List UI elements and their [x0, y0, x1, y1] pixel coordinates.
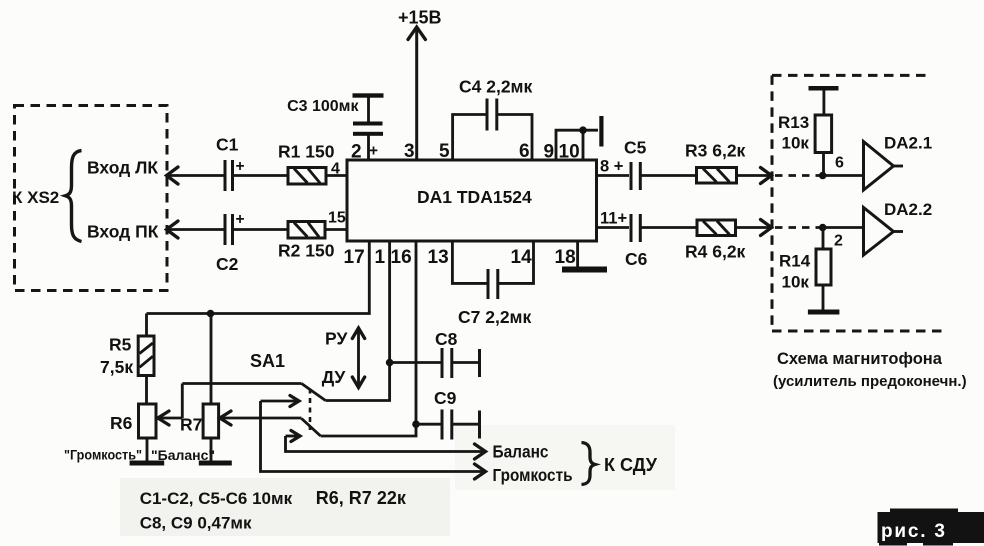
pin 5 label [439, 141, 450, 162]
svg-text:С1-С2, С5-С6 10мк: С1-С2, С5-С6 10мк [140, 489, 293, 508]
svg-text:С8, С9 0,47мк: С8, С9 0,47мк [140, 514, 252, 533]
svg-text:C4 2,2мк: C4 2,2мк [459, 77, 533, 97]
wire C2 to R2 [233, 228, 289, 231]
svg-text:DA1 TDA1524: DA1 TDA1524 [417, 187, 532, 207]
svg-text:C5: C5 [624, 138, 647, 158]
wire C9 to terminal [452, 411, 480, 439]
node Вход ПК [87, 222, 159, 242]
svg-text:11+: 11+ [600, 210, 627, 228]
svg-text:1: 1 [375, 247, 386, 268]
svg-text:R6: R6 [110, 413, 133, 433]
wire C8 to terminal [452, 349, 480, 377]
wire R4 to DA2.2 with arrow [736, 220, 772, 236]
wire громкость output [261, 401, 485, 472]
svg-text:C9: C9 [434, 388, 457, 408]
label Громкость [64, 447, 142, 463]
pin 3 label [404, 141, 415, 162]
svg-text:С3 100мк: С3 100мк [287, 98, 359, 115]
wiper arrow into R6 [158, 384, 183, 426]
pin 14 label [511, 247, 533, 268]
wire input left channel with arrow [167, 167, 225, 184]
wire to C9 [416, 423, 441, 426]
РУ label with up arrow [325, 328, 365, 386]
wire C5 to R3 [640, 174, 696, 177]
dashed box right (open right side) [772, 75, 946, 331]
junction R14 on DA2.2 input [819, 224, 827, 232]
wire junction to DA2.1 [823, 174, 864, 177]
svg-text:SA1: SA1 [250, 351, 285, 371]
switch contact to СДУ (громкость) with arrow [261, 396, 300, 407]
svg-text:+: + [236, 211, 245, 228]
brace К СДУ [582, 443, 596, 485]
svg-text:К XS2: К XS2 [12, 188, 59, 207]
svg-text:6: 6 [519, 141, 530, 162]
switch SA1 lever 2 [302, 419, 321, 437]
pin 11 label [600, 210, 627, 228]
switch SA1 mechanical link [309, 389, 312, 431]
pin 18 label [555, 247, 576, 268]
note усилитель предоконечн [773, 373, 967, 390]
dashed wire into DA2.2 [775, 226, 820, 229]
svg-text:9: 9 [544, 142, 555, 163]
resistor R1 150 [278, 142, 335, 185]
svg-text:К СДУ: К СДУ [604, 455, 658, 475]
junction C8 tap on pin1 line [386, 359, 394, 367]
ground below R6 [130, 438, 165, 466]
node К XS2 label [12, 188, 59, 207]
wire C1 to R1 [233, 174, 289, 177]
capacitor C8 [435, 329, 458, 378]
svg-text:R6, R7 22к: R6, R7 22к [316, 488, 407, 508]
wire R5 to R6 [145, 376, 148, 405]
svg-text:(усилитель предоконечн.): (усилитель предоконечн.) [773, 373, 967, 390]
svg-text:РУ: РУ [325, 329, 348, 349]
wire R1 to pin4 [326, 161, 347, 178]
ground plate at pins 9,10 [599, 116, 603, 147]
svg-text:ДУ: ДУ [322, 367, 347, 387]
svg-text:4: 4 [331, 161, 340, 178]
svg-text:15: 15 [328, 210, 346, 227]
svg-text:10к: 10к [782, 273, 810, 292]
wire R7 top to control rail [207, 310, 215, 404]
label Баланс [151, 447, 215, 463]
resistor R13 10к [778, 113, 832, 176]
wire pin13 to C7 [452, 241, 486, 283]
wire pin5 up to C4 [453, 115, 486, 161]
wire pins 9,10 to plate terminal [556, 126, 598, 160]
svg-text:C1: C1 [216, 135, 239, 155]
svg-text:R7: R7 [180, 415, 202, 435]
resistor R4 6,2к [685, 220, 746, 262]
svg-text:+: + [236, 158, 245, 175]
wire pin16 down to switch contact [321, 241, 416, 436]
svg-text:10: 10 [559, 142, 580, 163]
svg-text:DA2.1: DA2.1 [884, 134, 932, 153]
junction C9 tap on pin16 line [412, 420, 420, 428]
capacitor C4 2,2мк [459, 77, 533, 131]
wire pin17 down to control rail [147, 241, 370, 314]
wire to C8 [390, 361, 441, 364]
svg-text:C6: C6 [625, 249, 648, 269]
svg-text:8 +: 8 + [600, 158, 623, 176]
capacitor C7 2,2мк [458, 269, 532, 327]
pin 8 label [600, 158, 623, 176]
svg-text:+: + [369, 143, 378, 160]
ground at pin 18 [562, 241, 607, 273]
svg-text:рис. 3: рис. 3 [881, 521, 947, 542]
svg-text:6: 6 [835, 155, 844, 172]
svg-text:R1 150: R1 150 [278, 142, 335, 162]
capacitor C6 [625, 214, 648, 269]
svg-text:16: 16 [391, 247, 412, 268]
wire R3 to DA2.1 with arrow [737, 168, 772, 184]
wire pin14 to C7 [498, 241, 534, 283]
IC DA1 TDA1524 [347, 160, 597, 241]
svg-text:R3 6,2к: R3 6,2к [685, 141, 746, 161]
wire R2 to pin15 [325, 210, 347, 230]
svg-text:C7 2,2мк: C7 2,2мк [458, 307, 532, 327]
capacitor C1 [216, 135, 245, 192]
pin 17 label [344, 247, 365, 268]
wire C6 to R4 [640, 226, 697, 229]
svg-text:Громкость: Громкость [493, 465, 573, 485]
ground below R7 [199, 438, 232, 466]
pin 6 label [519, 141, 530, 162]
svg-text:R5: R5 [109, 335, 132, 355]
+15V supply wire and arrow [398, 8, 442, 161]
wire A from R6 wiper to switch pole 1 [182, 382, 301, 385]
resistor R3 6,2к [685, 141, 746, 184]
svg-text:Вход ЛК: Вход ЛК [87, 158, 158, 178]
figure label рис. 3 [878, 509, 984, 546]
svg-text:14: 14 [511, 247, 533, 268]
svg-text:C2: C2 [216, 254, 239, 274]
wire input right channel with arrow [167, 221, 225, 238]
node Громкость output label [493, 465, 573, 485]
svg-text:Схема магнитофона: Схема магнитофона [777, 350, 943, 368]
capacitor C9 [434, 388, 457, 440]
svg-text:13: 13 [428, 247, 449, 268]
switch SA1 label [250, 351, 285, 371]
wire pin8 to C5 [597, 174, 630, 177]
svg-text:2: 2 [351, 142, 362, 163]
resistor R14 10к [779, 228, 831, 292]
wire junction to DA2.2 [823, 226, 864, 229]
svg-text:C8: C8 [435, 329, 458, 349]
ground below R14 [808, 285, 840, 315]
switch contact to СДУ (баланс) with arrow [286, 431, 301, 442]
junction R13 on DA2.1 input [819, 172, 827, 180]
wiper arrow into R7 (wire B from switch pole 2) [220, 411, 302, 425]
svg-text:17: 17 [344, 247, 365, 268]
svg-text:10к: 10к [782, 134, 810, 153]
svg-text:"Баланс": "Баланс" [151, 447, 215, 463]
pin 1 label [375, 247, 386, 268]
potentiometer R6 [110, 404, 156, 438]
potentiometer R7 [180, 404, 219, 438]
pin 10 label [559, 142, 580, 163]
note Схема магнитофона [777, 350, 943, 368]
connector XS2 dashed box [15, 106, 168, 291]
op-amp DA2.2 [864, 200, 933, 255]
capacitor C5 [624, 138, 647, 191]
resistor R2 150 [278, 222, 335, 261]
node Вход ЛК [87, 158, 158, 178]
pin 9 label [544, 142, 555, 163]
svg-text:5: 5 [439, 141, 450, 162]
ДУ label with down arrow [322, 367, 365, 388]
pin 16 label [391, 247, 412, 268]
svg-text:3: 3 [404, 141, 415, 162]
resistor R5 7,5к [100, 314, 154, 378]
svg-text:R2 150: R2 150 [278, 241, 335, 261]
note C8 C9 values [140, 514, 252, 533]
pin 2 label [351, 142, 378, 163]
pin 6 label [835, 155, 844, 172]
svg-text:2: 2 [834, 233, 843, 250]
wire баланс output [286, 436, 485, 452]
svg-text:18: 18 [555, 247, 576, 268]
wire pin11 to C6 [597, 226, 630, 229]
wire pin1 down to switch contact [326, 241, 390, 401]
note R6 R7 values [316, 488, 407, 508]
brace for XS2 inputs [66, 151, 82, 242]
svg-text:R14: R14 [779, 252, 811, 271]
svg-text:R13: R13 [778, 113, 809, 132]
svg-text:"Громкость": "Громкость" [64, 447, 142, 463]
node Баланс output label [493, 442, 549, 462]
capacitor C3 100мк [287, 93, 383, 160]
capacitor C2 [216, 211, 245, 274]
pin 2 label [834, 233, 843, 250]
switch SA1 lever 1 [302, 384, 326, 401]
dashed wire into DA2.1 [775, 174, 820, 177]
svg-text:+15В: +15В [398, 8, 442, 28]
svg-text:R4 6,2к: R4 6,2к [685, 242, 746, 262]
svg-text:7,5к: 7,5к [100, 357, 133, 377]
arrow баланс output [475, 444, 486, 459]
pin 13 label [428, 247, 449, 268]
op-amp DA2.1 [864, 134, 933, 191]
ground bar above R13 [809, 86, 839, 115]
wire C4 to pin6 [497, 115, 532, 161]
svg-text:Вход ПК: Вход ПК [87, 222, 159, 242]
svg-text:Баланс: Баланс [493, 442, 549, 462]
arrow громкость output [475, 464, 486, 479]
svg-text:DA2.2: DA2.2 [884, 200, 932, 219]
note C1-C2 C5-C6 values [140, 489, 293, 508]
node К СДУ label [604, 455, 658, 475]
